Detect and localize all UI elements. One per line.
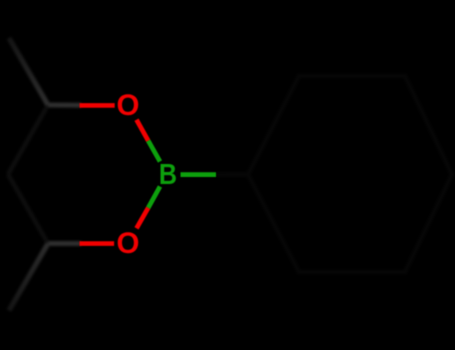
bond O2-C6 black half ghost [48,241,81,246]
bond O1-C4 black half ghost [48,103,81,108]
bond B-O1 green half [148,141,160,162]
bond O2-C6 red half [80,241,115,246]
bond B-O2 red half [137,208,149,229]
bond B-O2 green half [148,187,160,208]
bond B-ring black half ghost [216,172,248,177]
svg-text:B: B [159,158,177,190]
svg-text:O: O [117,227,140,260]
bond B-O1 red half [137,120,149,141]
bond O1-C4 red half [80,103,115,108]
svg-text:O: O [117,89,140,122]
cyclohexyl ring ghost [248,76,452,272]
dioxaborinane ring bond C5-C6 ghost [8,174,48,243]
dioxaborinane ring bond C4-C5 ghost [8,105,48,174]
bond B-ring green half [181,172,217,177]
methyl bond on C4 ghost [9,38,48,105]
methyl bond on C6 ghost [9,244,48,311]
